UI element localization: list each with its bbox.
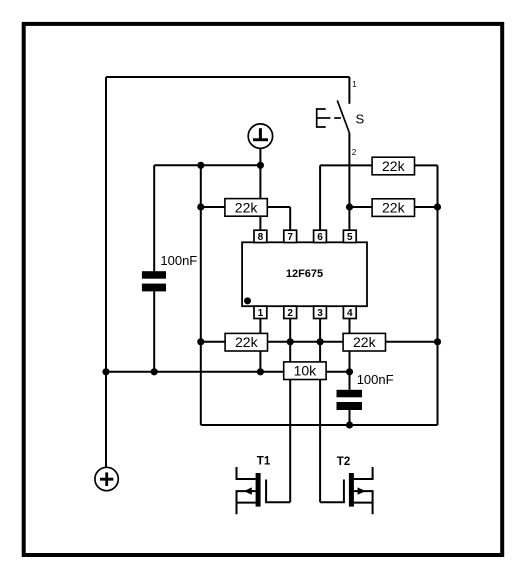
node row B / right rail [434,338,441,345]
svg-text:12F675: 12F675 [286,268,323,280]
wire pin 1 drop [259,319,261,372]
svg-text:1: 1 [258,308,264,319]
svg-text:22k: 22k [235,334,259,350]
svg-text:S: S [356,111,365,126]
wire pin 3 drop [319,319,321,503]
node pin 4 / C2 [346,368,353,375]
switch S actuator link [317,117,331,119]
node rail A / mid rail [197,162,204,169]
pin box 1 [254,306,267,318]
svg-text:22k: 22k [382,158,406,174]
transistor T2 source lead [354,502,373,504]
svg-text:7: 7 [287,232,293,243]
svg-text:22k: 22k [382,200,406,216]
transistor T2 bulk lead [354,491,373,514]
pin box 4 [343,306,356,318]
svg-text:3: 3 [317,308,323,319]
wire T1 gate [266,480,290,503]
resistor R5 22k [343,333,385,351]
wire row R4 right [350,206,438,208]
wire T2 gate [320,480,344,503]
svg-text:6: 6 [317,232,323,243]
wire capacitor C2 upper lead [349,372,351,390]
pin box 7 [284,230,297,242]
resistor R1 22k [225,199,267,217]
svg-text:5: 5 [347,232,353,243]
svg-text:2: 2 [287,308,293,319]
svg-text:100nF: 100nF [357,372,394,387]
wire bottom return rail [201,424,438,426]
node mid rail / row B [197,338,204,345]
node switch / R4 [346,203,353,210]
transistor T1 source lead [237,502,256,504]
switch S actuator bracket [317,109,326,127]
wire top supply rail [106,76,349,78]
svg-text:22k: 22k [353,334,377,350]
transistor T1 drain lead [237,467,256,479]
transistor T1 channel bar [256,473,261,507]
transistor T2 channel bar [349,473,354,507]
transistor T1 bulk lead [237,491,256,514]
svg-text:10k: 10k [294,363,318,379]
wire pin 8 drop [259,165,261,230]
transistor T2 arrow [358,487,366,494]
battery plus terminal [95,467,118,490]
wire pin 6 riser [319,165,321,230]
wire row R1 left [201,206,290,208]
node row B / pin 2 [287,338,294,345]
node mid rail / R1 [197,203,204,210]
pin box 6 [314,230,327,242]
wire capacitor C2 lower lead [349,410,351,425]
capacitor C2 plates [337,390,363,410]
wire pin 4 drop [349,319,351,372]
pin box 3 [314,306,327,318]
node R4 / right rail [434,203,441,210]
node pin 1 / row C [257,368,264,375]
node C1 / row C [151,368,158,375]
IC U1 pin 1 marker [244,297,251,304]
transistor T2 drain lead [354,467,373,479]
resistor R3 22k [372,157,414,175]
wire pin 7 drop [289,207,291,230]
node left rail / row C [102,368,109,375]
node C2 / bottom rail [346,421,353,428]
svg-text:100nF: 100nF [160,253,197,268]
wire Vdd circle stub [259,148,261,165]
pin box 5 [343,230,356,242]
svg-text:4: 4 [347,308,353,319]
wire switch terminal 1 stub [348,77,350,104]
capacitor C1 plates [142,271,166,291]
node rail A / pin 8 [257,162,264,169]
supply terminal symbol top [248,124,272,148]
svg-text:1: 1 [352,80,357,89]
wire row C [106,371,350,373]
wire right rail [437,165,439,425]
node row B / pin 3 [317,338,324,345]
IC U1 12F675 body [242,242,367,306]
resistor R4 22k [372,199,414,217]
pin box 8 [254,230,267,242]
wire switch to pin 5 [348,133,350,230]
svg-text:22k: 22k [235,199,259,215]
svg-text:2: 2 [352,148,357,157]
svg-text:8: 8 [258,232,264,243]
pin box 2 [284,306,297,318]
wire middle-left rail [200,165,202,425]
resistor R6 10k [284,362,326,380]
svg-text:T1: T1 [257,455,271,467]
wire row B [201,341,438,343]
resistor R2 22k [225,333,267,351]
wire left supply rail [105,77,107,467]
wire capacitor C1 lower lead [153,291,155,371]
svg-text:T2: T2 [337,456,350,468]
wire capacitor C1 upper lead [153,165,155,271]
wire pin 2 drop [289,319,291,503]
wire row R3 [320,164,437,166]
switch S blade [337,100,349,132]
switch S actuator link dash [334,117,341,119]
wire rail A horizontal [154,164,260,166]
transistor T1 arrow [244,487,252,494]
